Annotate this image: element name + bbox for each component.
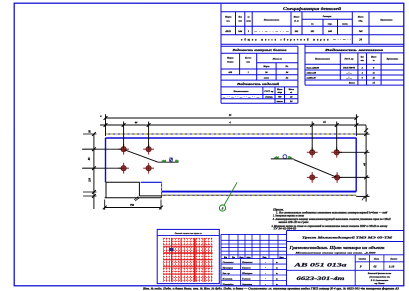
- svg-text:т: т: [276, 273, 278, 275]
- svg-text:т: т: [276, 284, 278, 286]
- svg-text:гайка м20: гайка м20: [307, 72, 317, 75]
- anchor bolt marker B3: [118, 163, 129, 174]
- table: anchor bolts list: [221, 45, 298, 47]
- svg-text:1: 1: [248, 71, 249, 74]
- svg-text:общ.: общ.: [358, 20, 363, 23]
- svg-text:Листов: Листов: [389, 259, 397, 261]
- svg-text:ед. кг: ед. кг: [294, 20, 299, 23]
- right vertical dimension chain: [365, 125, 367, 201]
- svg-text:ГОСТ- ту: ГОСТ- ту: [263, 91, 273, 93]
- svg-text:Примечание: Примечание: [386, 59, 399, 61]
- svg-text:АВ 051 013а: АВ 051 013а: [293, 262, 348, 268]
- red grid heavy lines: [163, 238, 212, 281]
- svg-text:Монтажная схема щита на отм. -: Монтажная схема щита на отм. -2.500: [294, 252, 377, 255]
- svg-text:Всего:: Всего:: [348, 83, 356, 85]
- support console (black): [106, 181, 139, 183]
- svg-text:Подп: Подп: [262, 256, 267, 259]
- svg-text:№док: №док: [245, 256, 250, 259]
- svg-text:общая масса сборочной марки —·: общая масса сборочной марки —··—··: [241, 39, 351, 42]
- svg-text:«Союзгипроводхоз» им.: «Союзгипроводхоз» им.: [369, 276, 391, 279]
- svg-text:Горелов: Горелов: [241, 267, 251, 270]
- plate outline (blue): [106, 137, 357, 139]
- svg-text:Марка: Марка: [262, 66, 269, 68]
- svg-text:шайба 20: шайба 20: [307, 77, 317, 80]
- svg-text:291: 291: [294, 30, 299, 33]
- steel usage box (red grid): [157, 229, 219, 283]
- svg-text:Грязеотстойник. Щит затвора на: Грязеотстойник. Щит затвора на объект: [288, 245, 385, 250]
- leader right with weld label: [294, 160, 337, 178]
- anchor bolt marker B2: [143, 144, 154, 155]
- svg-text:шт: шт: [361, 60, 365, 62]
- svg-text:11: 11: [373, 73, 375, 75]
- svg-text:гор. Казань: гор. Казань: [374, 283, 384, 285]
- svg-text:240: 240: [327, 30, 333, 33]
- svg-text:эмалью ПФ-115 за 2 раза: эмалью ПФ-115 за 2 раза: [277, 221, 309, 224]
- balloon leader: [224, 182, 237, 205]
- svg-text:Ведомость метизов: Ведомость метизов: [323, 48, 385, 52]
- left vertical dimension chain: [93, 134, 95, 209]
- anchor bolt marker B8: [332, 172, 343, 183]
- svg-text:Наименование: Наименование: [263, 19, 281, 22]
- svg-text:Галеева: Галеева: [241, 278, 251, 281]
- svg-text:—″—: —″—: [345, 78, 352, 80]
- svg-text:«Анкер»: «Анкер»: [265, 96, 273, 99]
- svg-text:Проверил: Проверил: [222, 267, 234, 270]
- svg-text:ЛВ11: ЛВ11: [224, 30, 231, 33]
- anchor bolt marker B1: [118, 144, 129, 155]
- svg-text:лист: лист: [245, 21, 251, 23]
- svg-text:Наименование: Наименование: [233, 91, 249, 93]
- svg-text:Р: Р: [360, 265, 362, 269]
- dashed edge line top (angle frame, hidden): [106, 133, 357, 135]
- svg-text:всего: всего: [264, 77, 270, 80]
- blue mark in red grid: [169, 248, 174, 251]
- svg-text:шт: шт: [246, 62, 250, 64]
- table: hardware (metizy) list: [305, 45, 404, 47]
- svg-text:Примечание: Примечание: [379, 20, 392, 22]
- svg-text:6623-301-4т: 6623-301-4т: [297, 277, 345, 282]
- svg-text:т: т: [276, 279, 278, 281]
- svg-text:Ведомость анкерных болтов: Ведомость анкерных болтов: [231, 48, 287, 52]
- svg-text:Трест Мелиоводстрой ТМЗ МЭ: Трест Мелиоводстрой ТМЗ МЭ 05-ТМ: [302, 235, 394, 240]
- title block: right part: [286, 231, 288, 286]
- svg-text:Размеры: Размеры: [323, 16, 332, 18]
- position balloon: [219, 205, 225, 211]
- svg-text:болт м20х90: болт м20х90: [307, 67, 320, 70]
- svg-text:Масса: Масса: [288, 89, 294, 91]
- anchor bolt marker B4: [143, 163, 154, 174]
- plate bottom-left step: [141, 181, 162, 183]
- svg-text:Утвердил: Утвердил: [223, 283, 235, 286]
- svg-text:Масса: Масса: [276, 89, 282, 91]
- svg-text:Спецификация деталей: Спецификация деталей: [283, 6, 342, 11]
- svg-text:Марка: Марка: [226, 58, 234, 60]
- svg-text:шт: шт: [238, 21, 242, 23]
- svg-text:в24: в24: [274, 157, 279, 160]
- svg-text:Пв: Пв: [174, 160, 179, 163]
- svg-text:на: на: [247, 17, 249, 19]
- svg-text:т: т: [276, 262, 278, 264]
- svg-text:251: 251: [310, 30, 315, 33]
- svg-text:41: 41: [372, 77, 375, 80]
- svg-text:Лист: Лист: [238, 257, 244, 259]
- svg-text:Марка: Марка: [224, 17, 232, 19]
- anchor bolt marker B7: [307, 172, 318, 183]
- console dimension line: [105, 207, 161, 209]
- leader left with weld label: [125, 150, 159, 162]
- svg-text:с24: с24: [162, 160, 167, 163]
- svg-text:—″—: —″—: [345, 73, 352, 75]
- dashed edge line bottom: [162, 194, 356, 196]
- svg-text:Масса кг: Масса кг: [272, 58, 282, 61]
- svg-text:болта: болта: [227, 61, 234, 64]
- svg-text:Масса: Масса: [293, 17, 300, 19]
- svg-text:Никешин: Никешин: [241, 261, 253, 264]
- svg-text:Е. Е. Алексеевского: Е. Е. Алексеевского: [370, 279, 389, 282]
- svg-text:ГОСТ 7798-70: ГОСТ 7798-70: [342, 68, 355, 70]
- weld mark on console: [134, 197, 139, 201]
- svg-text:1:10: 1:10: [389, 265, 395, 269]
- red grid hatch: [163, 238, 212, 281]
- svg-text:Лист: Лист: [373, 259, 380, 261]
- svg-text:Н.контр.: Н.контр.: [222, 278, 234, 281]
- svg-text:Антонов: Антонов: [241, 283, 253, 286]
- svg-text:Составил: Составил: [223, 261, 235, 264]
- svg-text:Ед.: Ед.: [285, 65, 289, 68]
- svg-text:ГОСТ- ту: ГОСТ- ту: [343, 59, 353, 61]
- svg-text:Ведомость изделий: Ведомость изделий: [235, 82, 279, 86]
- svg-text:Казанский филиал ин-та: Казанский филиал ин-та: [367, 272, 391, 275]
- svg-text:Дата: Дата: [278, 257, 283, 259]
- hidden vertical edge (dashed) at step: [161, 182, 163, 195]
- svg-text:толщ: толщ: [342, 24, 348, 26]
- extension lines (black): [82, 148, 122, 150]
- anchor bolt marker B6: [331, 147, 342, 158]
- svg-text:Пв: Пв: [287, 157, 292, 160]
- svg-text:Масса: Масса: [370, 57, 376, 59]
- svg-text:1: 1: [248, 30, 249, 33]
- svg-text:общи: общи: [277, 91, 282, 94]
- svg-text:Кол-во: Кол-во: [244, 58, 252, 60]
- svg-text:Зав. гр.: Зав. гр.: [222, 272, 231, 275]
- svg-text:Масса: Масса: [357, 17, 364, 19]
- svg-text:Кол: Кол: [231, 257, 235, 259]
- title block: left signature grid: [221, 233, 287, 235]
- svg-text:поз.: поз.: [226, 21, 230, 23]
- anchor bolt marker B5: [307, 147, 318, 158]
- svg-text:Инв. № подл. Подп. и дата Вз: Инв. № подл. Подп. и дата Взам. инв. № И…: [142, 288, 400, 291]
- chain dimension line (top, bolt spacing): [100, 124, 366, 126]
- svg-text:Наименование: Наименование: [314, 59, 330, 61]
- svg-text:т: т: [276, 268, 278, 270]
- table: specification header block: [221, 11, 404, 13]
- svg-text:шир.: шир.: [328, 24, 333, 26]
- svg-text:Кол: Кол: [360, 57, 364, 59]
- svg-text:итого: итого: [277, 101, 284, 103]
- svg-text:Стадия: Стадия: [359, 258, 366, 261]
- svg-text:05: 05: [374, 265, 378, 269]
- svg-text:Расход стали на щит кг: Расход стали на щит кг: [175, 232, 202, 235]
- table: welded parts list: [221, 86, 298, 88]
- overall dimension line (top): [106, 117, 357, 119]
- svg-text:Шакиров: Шакиров: [241, 272, 253, 275]
